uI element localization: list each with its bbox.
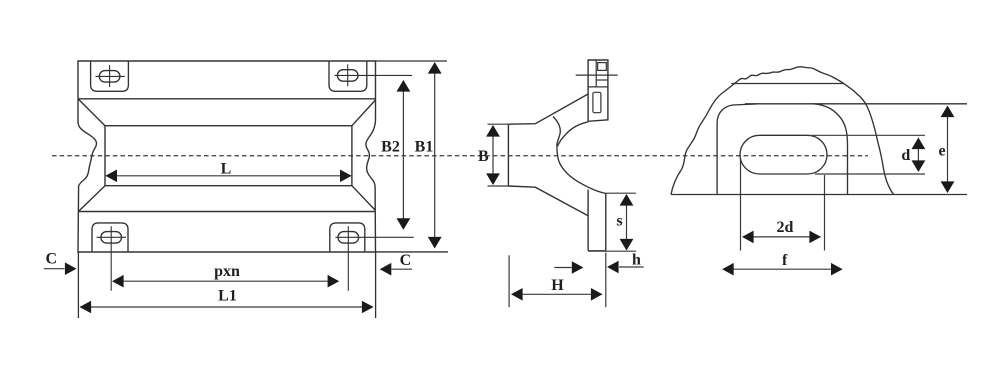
svg-text:B2: B2 bbox=[381, 139, 400, 156]
flange nut rect bbox=[598, 63, 607, 71]
slot bottom-left bbox=[101, 232, 122, 244]
flange outline bbox=[588, 60, 608, 121]
flange slot bbox=[593, 92, 601, 112]
dimension 2d bbox=[743, 236, 821, 238]
top band line bbox=[78, 98, 376, 100]
flange bolt axis bbox=[576, 74, 618, 76]
dimension L1 bbox=[81, 306, 373, 308]
bolt tab top-left bbox=[91, 61, 129, 91]
2d extension lines bbox=[741, 158, 825, 251]
dimension B2 bbox=[402, 81, 404, 229]
L1 right extension bbox=[375, 252, 377, 318]
left view plate outline bbox=[78, 61, 376, 252]
s extension lines bbox=[588, 193, 636, 251]
chamfer bottom-right bbox=[352, 186, 376, 211]
bolt tab bottom-right bbox=[330, 223, 365, 252]
arch top and e extension bbox=[745, 103, 967, 105]
dimension C left bbox=[44, 268, 65, 270]
svg-text:C: C bbox=[46, 251, 58, 268]
dimension H bbox=[512, 293, 602, 295]
svg-text:pxn: pxn bbox=[214, 263, 240, 280]
H extension lines bbox=[509, 253, 606, 308]
chamfer top-right bbox=[352, 100, 376, 126]
svg-text:L: L bbox=[221, 161, 232, 178]
svg-text:f: f bbox=[782, 252, 788, 269]
bolt tab bottom-left bbox=[92, 223, 128, 252]
base panel bbox=[588, 190, 606, 251]
d top extension bbox=[812, 134, 925, 136]
dimension f bbox=[723, 268, 842, 270]
svg-text:s: s bbox=[616, 213, 622, 230]
dimension B1 bbox=[434, 63, 436, 248]
dimension e bbox=[947, 107, 949, 193]
slot top-left bbox=[99, 71, 120, 83]
arch right side bbox=[813, 104, 847, 195]
crosshair top-right with B2 top extension bbox=[335, 64, 413, 86]
flange inner plate line bbox=[588, 60, 608, 87]
svg-text:h: h bbox=[632, 252, 641, 269]
flange washer line bbox=[596, 79, 608, 81]
body contour wavy line bbox=[553, 117, 606, 194]
slot bottom-right bbox=[338, 232, 359, 244]
svg-text:e: e bbox=[938, 143, 945, 160]
crosshair top-left bbox=[96, 65, 125, 87]
dimension h bbox=[554, 267, 571, 269]
centerline bbox=[52, 155, 868, 157]
dimension d bbox=[917, 139, 919, 172]
flange-to-body contour bbox=[557, 122, 588, 147]
slot top-right bbox=[337, 70, 358, 82]
dimension B bbox=[492, 126, 494, 184]
bottom band line bbox=[78, 211, 376, 213]
right view baseline bbox=[671, 194, 967, 196]
svg-text:d: d bbox=[901, 147, 910, 164]
crosshair bottom-left with pxn extension bbox=[97, 226, 127, 291]
middle view face bbox=[507, 124, 509, 186]
middle view top edge bbox=[508, 94, 588, 124]
inner rectangle bbox=[105, 126, 352, 186]
svg-text:B: B bbox=[478, 148, 489, 165]
svg-text:L1: L1 bbox=[218, 288, 237, 305]
svg-text:H: H bbox=[551, 277, 564, 294]
chamfer top-left bbox=[78, 99, 105, 126]
svg-text:B1: B1 bbox=[415, 139, 434, 156]
bolt tab top-right bbox=[329, 61, 367, 91]
middle view bottom edge bbox=[508, 186, 588, 216]
crosshair bottom-right with B2 bottom extension bbox=[335, 226, 413, 291]
chamfer bottom-left bbox=[78, 186, 105, 212]
dimension pxn bbox=[113, 280, 338, 282]
arch left side bbox=[717, 104, 757, 195]
blob top chord bbox=[731, 83, 843, 85]
dimension C right bbox=[392, 268, 413, 270]
right view rubber blob outline bbox=[671, 67, 894, 195]
dimension L bbox=[106, 175, 351, 177]
svg-text:C: C bbox=[400, 252, 412, 269]
d bottom extension bbox=[815, 173, 925, 175]
B1 bottom extension bbox=[376, 251, 449, 253]
svg-text:2d: 2d bbox=[777, 219, 794, 236]
dimension s bbox=[626, 195, 628, 250]
B extension lines bbox=[488, 124, 509, 186]
bore stadium bbox=[740, 135, 827, 174]
L1 left extension bbox=[77, 252, 79, 318]
B1 top extension bbox=[376, 60, 448, 62]
